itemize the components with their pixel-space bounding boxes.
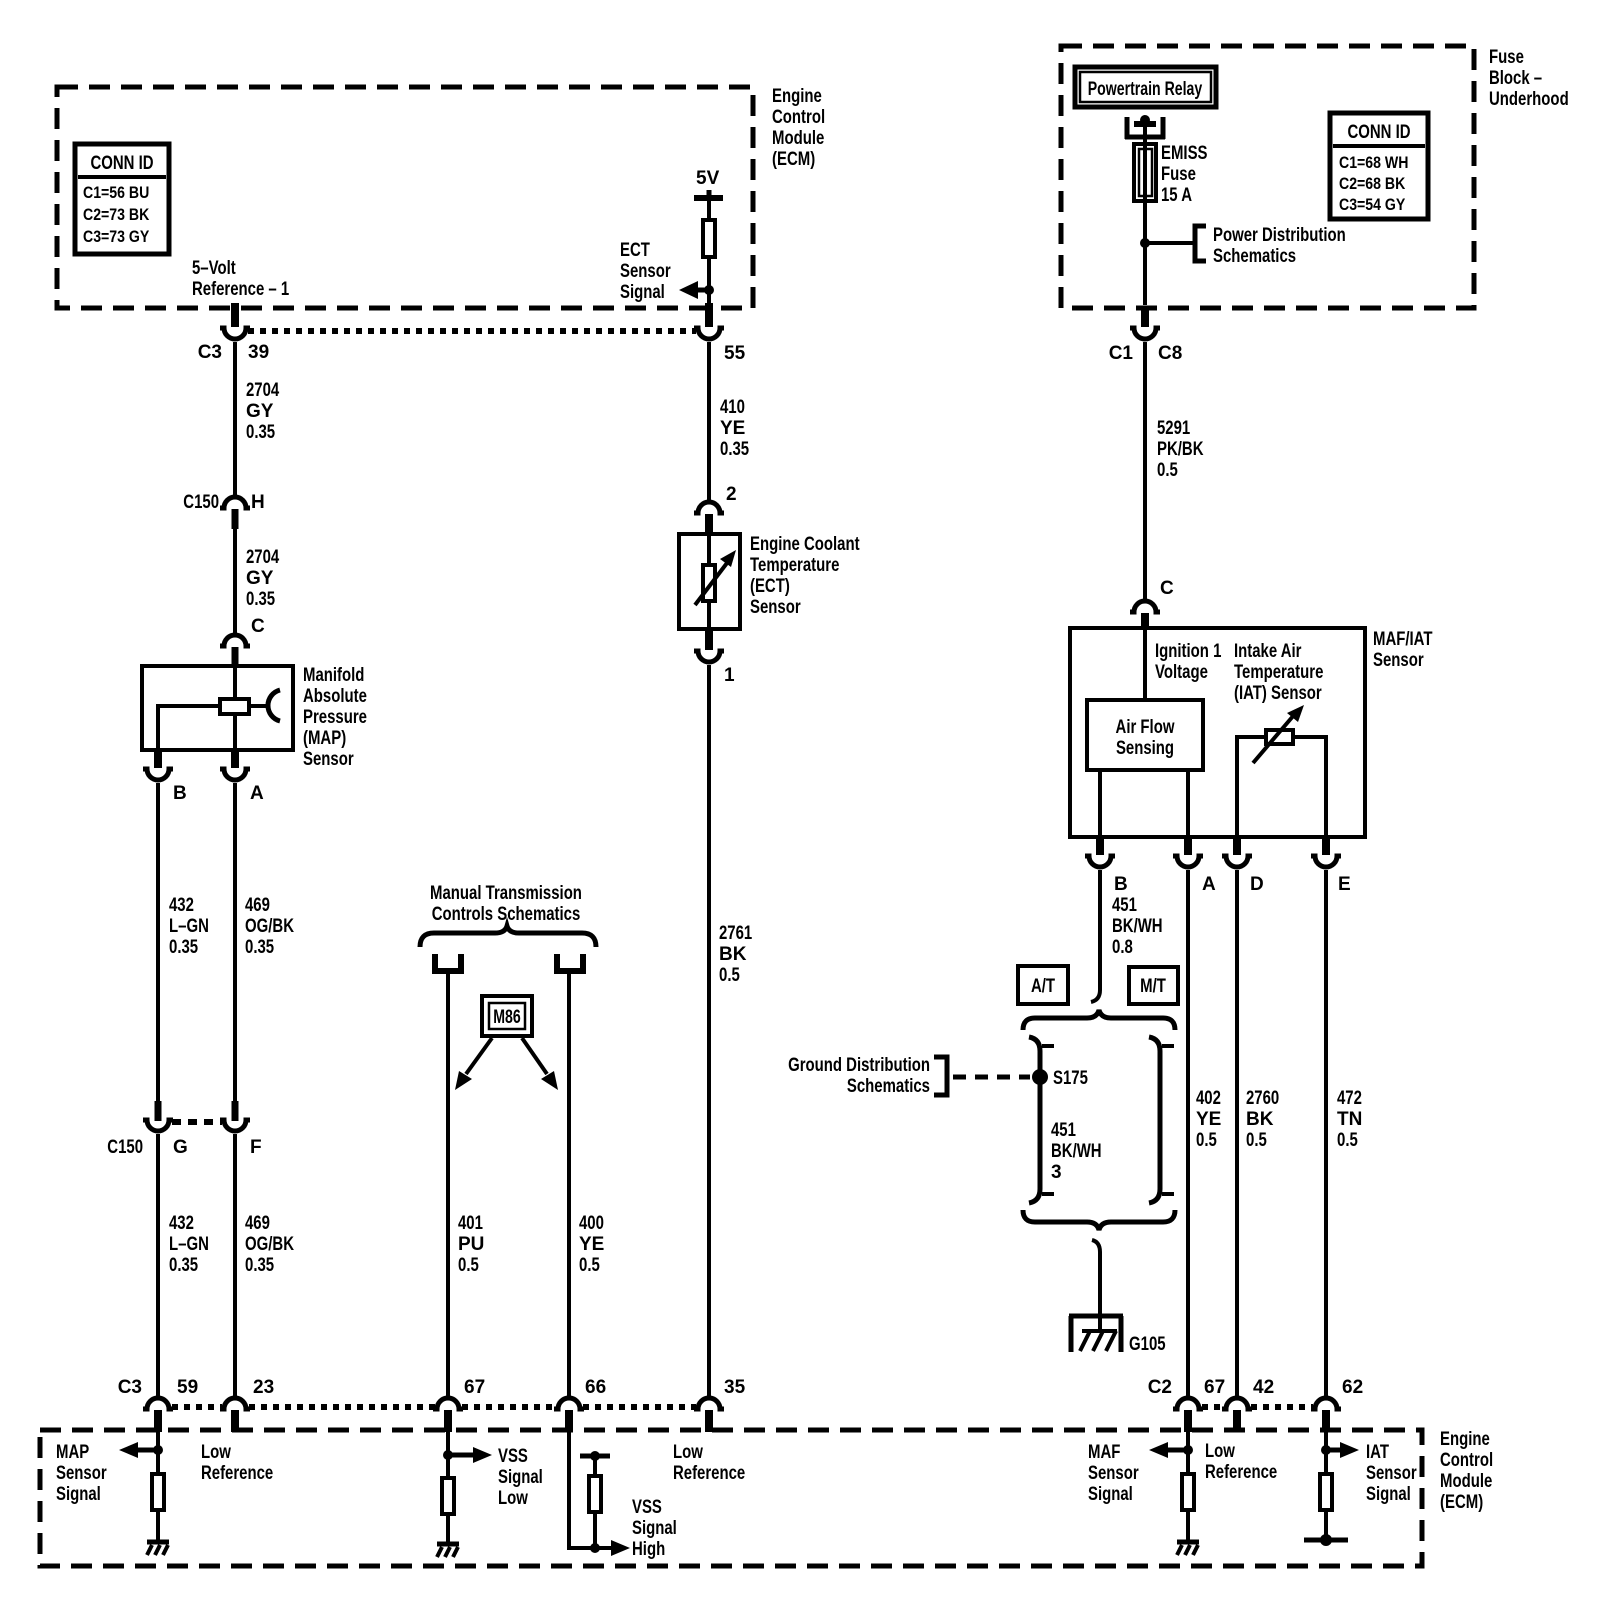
resistor VSS low (ECM) [442,1478,454,1514]
svg-text:23: 23 [253,1377,274,1398]
svg-text:Engine: Engine [1440,1429,1490,1450]
svg-text:Sensing: Sensing [1116,738,1174,759]
svg-text:(ECM): (ECM) [772,149,815,170]
wire IAT left leg [1237,737,1264,837]
connector MAF pin B [1085,837,1128,895]
svg-text:Sensor: Sensor [1088,1463,1139,1484]
svg-text:Control: Control [1440,1450,1493,1471]
ground (ECM internal, MAP) [147,1512,169,1555]
dashed callout line to S175 [953,1075,1030,1080]
svg-text:410: 410 [720,397,745,418]
svg-text:432: 432 [169,895,194,916]
label: EMISS Fuse 15 A [1161,143,1208,206]
connector terminal (to M/T schematics, left) [435,954,461,971]
label: 469 OG/BK 0.35 (lower) [245,1213,294,1276]
Powertrain Relay box [1075,67,1216,107]
node: ECT sensor signal junction + arrow [679,281,714,299]
svg-text:C2=68 BK: C2=68 BK [1339,174,1406,193]
svg-text:0.5: 0.5 [458,1255,479,1276]
svg-text:0.35: 0.35 [245,1255,274,1276]
node: power distribution tap [1140,238,1193,248]
svg-text:BK/WH: BK/WH [1051,1141,1102,1162]
MAP transducer element (resistor) [220,699,249,714]
svg-text:Control: Control [772,107,825,128]
svg-text:VSS: VSS [498,1446,528,1467]
svg-text:Ground Distribution: Ground Distribution [788,1055,930,1076]
MAP internal low-ref branch [158,706,218,750]
svg-text:472: 472 [1337,1088,1362,1109]
svg-text:Voltage: Voltage [1155,662,1208,683]
M86 arrow right [522,1038,558,1090]
svg-text:2760: 2760 [1246,1088,1279,1109]
option bracket left [1029,1037,1054,1203]
svg-text:0.35: 0.35 [720,439,749,460]
svg-text:400: 400 [579,1213,604,1234]
svg-text:39: 39 [248,342,269,363]
ECM module box (top left, dashed) [57,87,753,308]
svg-text:OG/BK: OG/BK [245,1234,294,1255]
svg-text:(MAP): (MAP) [303,728,346,749]
ground G105 [1069,1316,1123,1352]
svg-text:VSS: VSS [632,1497,662,1518]
MAP sensor box [142,666,293,750]
svg-text:M/T: M/T [1140,976,1166,997]
wire 432 L-GN (upper) [156,783,160,1101]
svg-text:Sensor: Sensor [620,261,671,282]
svg-text:Reference: Reference [201,1463,273,1484]
svg-text:67: 67 [464,1377,485,1398]
label: Low Reference (mid) [673,1442,745,1484]
label: 2760 BK 0.5 [1246,1088,1279,1151]
svg-text:C150: C150 [183,492,219,513]
svg-text:G: G [173,1137,188,1158]
wire VSS high run [569,1432,612,1548]
connector MAF/IAT pin C [1130,578,1174,630]
fuse EMISS 15A [1134,144,1156,201]
wire C1 border stub [1141,306,1149,327]
wire 5291 PK/BK [1143,342,1147,600]
label: 432 L-GN 0.35 (lower) [169,1213,209,1276]
dotted connector-row line (bottom right) [1202,1404,1313,1410]
wire 402 YE [1186,870,1190,1397]
svg-text:Low: Low [673,1442,703,1463]
relay contact symbol [1125,115,1165,144]
connector C150 pin G [107,1101,187,1158]
svg-text:B: B [173,783,187,804]
svg-text:S175: S175 [1053,1068,1088,1089]
svg-text:Low: Low [498,1488,528,1509]
connector terminal (to M/T schematics, right) [557,954,583,971]
svg-text:Module: Module [772,128,824,149]
svg-text:C1=68 WH: C1=68 WH [1339,153,1408,172]
MAP pressure port symbol [251,690,280,721]
svg-text:C3: C3 [118,1377,142,1398]
svg-text:EMISS: EMISS [1161,143,1208,164]
connector C150 pin H [183,492,264,529]
svg-text:E: E [1338,874,1351,895]
svg-text:C150: C150 [107,1137,143,1158]
svg-text:H: H [251,492,265,513]
wire MAF output A [1186,770,1190,837]
arrow VSS signal high [611,1540,630,1556]
svg-text:A: A [250,783,264,804]
svg-text:0.5: 0.5 [1337,1130,1358,1151]
node: MAF sensor signal + arrow [1149,1432,1193,1472]
svg-text:YE: YE [720,418,745,439]
label: 469 OG/BK 0.35 (upper) [245,895,294,958]
svg-text:55: 55 [724,343,746,364]
svg-text:C: C [1160,578,1174,599]
ECT sensor box [679,534,740,629]
label: Engine Coolant Temperature (ECT) Sensor [750,534,860,618]
ground (ECM internal, MAF) [1177,1512,1199,1555]
svg-text:A/T: A/T [1031,976,1055,997]
svg-text:Sensor: Sensor [1366,1463,1417,1484]
svg-text:G105: G105 [1129,1334,1166,1355]
M86 callout box [482,996,532,1036]
svg-text:5–Volt: 5–Volt [192,258,236,279]
svg-text:Sensor: Sensor [56,1463,107,1484]
svg-text:Signal: Signal [56,1484,101,1505]
label: 472 TN 0.5 [1337,1088,1362,1151]
svg-text:62: 62 [1342,1377,1363,1398]
svg-text:OG/BK: OG/BK [245,916,294,937]
svg-text:C2=73 BK: C2=73 BK [83,205,150,224]
label: 5291 PK/BK 0.5 [1157,418,1204,481]
connector MAF pin A [1173,837,1216,895]
wire MAF output B [1098,770,1102,837]
wire to ground G105 [1092,1240,1100,1316]
label: 5-Volt Reference - 1 [192,258,290,300]
M/T option box [1129,967,1178,1004]
svg-text:GY: GY [246,401,274,422]
svg-text:Powertrain Relay: Powertrain Relay [1088,79,1203,100]
svg-text:Signal: Signal [1088,1484,1133,1505]
svg-text:Sensor: Sensor [750,597,801,618]
connector pin 42 [1222,1377,1274,1432]
svg-text:IAT: IAT [1366,1442,1389,1463]
CONN ID table (fuse block) [1330,113,1428,219]
svg-text:CONN ID: CONN ID [1347,122,1410,143]
connector C150 pin F [220,1101,262,1158]
svg-text:469: 469 [245,895,270,916]
svg-text:Signal: Signal [620,282,665,303]
wire 2704 GY (lower) [233,529,237,635]
svg-text:TN: TN [1337,1109,1362,1130]
wire 469 OG/BK (upper) [233,783,237,1101]
connector pin 55 (ECM C-row) [694,328,746,364]
label: 402 YE 0.5 [1196,1088,1221,1151]
Air Flow Sensing box [1087,700,1203,770]
callout bracket: Ground Distribution Schematics [934,1057,947,1095]
wire IAT right leg [1295,737,1326,837]
MAP internal wiring [233,666,237,697]
svg-text:66: 66 [585,1377,606,1398]
connector pin 66 [554,1377,606,1432]
svg-text:2704: 2704 [246,380,280,401]
label: MAF Sensor Signal [1088,1442,1139,1505]
svg-text:BK: BK [1246,1109,1274,1130]
svg-text:0.5: 0.5 [1157,460,1178,481]
svg-text:Fuse: Fuse [1161,164,1196,185]
wire 432 L-GN (lower) [156,1134,160,1397]
connector C3 pin 39 [198,328,269,363]
svg-text:0.35: 0.35 [169,937,198,958]
label: Manifold Absolute Pressure (MAP) Sensor [303,665,367,770]
svg-text:3: 3 [1051,1162,1062,1183]
label: IAT Sensor Signal [1366,1442,1417,1505]
label: 400 YE 0.5 [579,1213,604,1276]
label: Fuse Block - Underhood [1489,47,1569,110]
svg-text:0.5: 0.5 [1246,1130,1267,1151]
label: Low Reference (right) [1205,1441,1277,1483]
svg-text:42: 42 [1253,1377,1274,1398]
svg-text:(IAT) Sensor: (IAT) Sensor [1234,683,1322,704]
wire 472 TN [1324,870,1328,1397]
connector MAP pin B [143,750,187,804]
svg-text:Air Flow: Air Flow [1116,717,1175,738]
wire 2761 BK [707,665,711,1397]
svg-text:0.35: 0.35 [245,937,274,958]
label: 2761 BK 0.5 [719,923,753,986]
label: Engine Control Module (ECM) [772,86,825,170]
svg-text:15 A: 15 A [1161,185,1192,206]
svg-text:2761: 2761 [719,923,753,944]
svg-text:YE: YE [1196,1109,1221,1130]
label: 2704 GY 0.35 (upper) [246,380,280,443]
connector ECT pin 2 [694,484,737,535]
svg-text:High: High [632,1539,665,1560]
svg-text:Sensor: Sensor [303,749,354,770]
connector C1 / C8 [1109,328,1183,364]
svg-text:Reference: Reference [673,1463,745,1484]
label: Power Distribution Schematics [1213,225,1346,267]
label: 451 BK/WH 0.8 [1112,895,1163,958]
label: Ignition 1 Voltage [1155,641,1222,683]
label: 410 YE 0.35 [720,397,749,460]
connector pin 67 [433,1377,485,1432]
connector ECT pin 1 [694,629,735,686]
svg-text:D: D [1250,874,1264,895]
svg-text:C2: C2 [1148,1377,1172,1398]
svg-text:67: 67 [1204,1377,1225,1398]
svg-text:2: 2 [726,484,737,505]
wire fuse to C1 [1143,202,1147,305]
svg-text:Module: Module [1440,1471,1492,1492]
connector C2 pin 67 [1148,1377,1225,1432]
node: IAT sensor signal + arrow [1321,1432,1359,1472]
svg-text:A: A [1202,874,1216,895]
termination bar (IAT low side) [1304,1512,1348,1546]
svg-text:401: 401 [458,1213,483,1234]
connector MAF pin E [1311,837,1351,895]
connector MAF pin D [1222,837,1264,895]
svg-text:Temperature: Temperature [750,555,839,576]
svg-text:35: 35 [724,1377,746,1398]
resistor IAT input (ECM) [1320,1474,1332,1510]
wire 39 border stub [231,303,239,327]
svg-text:Block –: Block – [1489,68,1542,89]
svg-text:C1=56 BU: C1=56 BU [83,183,149,202]
fuse block box (dashed) [1061,46,1474,308]
resistor VSS high (ECM) [580,1451,610,1553]
label: Manual Transmission Controls Schematics [430,883,582,925]
svg-text:59: 59 [177,1377,198,1398]
brace (options, upper) [1023,1010,1175,1030]
connector pin 23 [220,1377,274,1432]
svg-text:Reference – 1: Reference – 1 [192,279,290,300]
svg-text:L–GN: L–GN [169,1234,209,1255]
connector pin 35 [694,1377,746,1432]
wire 400 YE [567,974,571,1397]
5V supply symbol [694,168,723,218]
svg-text:F: F [250,1137,262,1158]
svg-text:PU: PU [458,1234,484,1255]
CONN ID table (ECM) [75,144,169,254]
svg-text:Manual Transmission: Manual Transmission [430,883,582,904]
svg-text:Low: Low [201,1442,231,1463]
wire from pull-up to ECT signal node [707,259,711,305]
svg-text:Sensor: Sensor [1373,650,1424,671]
ground (ECM internal, VSS low) [437,1516,459,1557]
IAT thermistor element [1253,705,1304,763]
ECM module box (bottom, dashed) [40,1430,1422,1566]
svg-text:(ECM): (ECM) [1440,1492,1483,1513]
label: ECT Sensor Signal [620,240,671,303]
svg-text:C: C [251,616,265,637]
brace (options, lower) [1023,1210,1175,1230]
wire 401 PU [446,974,450,1397]
svg-text:0.5: 0.5 [719,965,740,986]
wire 2760 BK [1235,870,1239,1397]
wire 2704 GY (upper) [233,342,237,497]
svg-text:C3: C3 [198,342,222,363]
ECT thermistor element [695,534,736,629]
option bracket right [1149,1037,1174,1203]
label: VSS Signal Low [498,1446,543,1509]
label: 2704 GY 0.35 (lower) [246,547,280,610]
wire ignition feed inside MAF [1143,628,1147,700]
svg-text:(ECT): (ECT) [750,576,790,597]
svg-text:432: 432 [169,1213,194,1234]
wire 410 YE [707,342,711,501]
label: MAP Sensor Signal [56,1442,107,1505]
svg-text:Underhood: Underhood [1489,89,1569,110]
svg-text:0.5: 0.5 [579,1255,600,1276]
label: VSS Signal High [632,1497,677,1560]
svg-text:C8: C8 [1158,343,1182,364]
svg-text:451: 451 [1051,1120,1076,1141]
svg-text:M86: M86 [493,1007,521,1028]
label: MAF/IAT Sensor [1373,629,1433,671]
svg-text:Engine: Engine [772,86,822,107]
resistor MAF input (ECM) [1182,1474,1194,1510]
A/T option box [1018,966,1068,1004]
wire 55 border stub [705,303,713,327]
svg-text:Schematics: Schematics [1213,246,1296,267]
MAF/IAT sensor box [1070,628,1365,837]
svg-text:Ignition 1: Ignition 1 [1155,641,1222,662]
wire 469 OG/BK (lower) [233,1134,237,1397]
M86 arrow left [455,1038,492,1090]
label: 451 BK/WH 3 [1051,1120,1102,1183]
label: Intake Air Temperature (IAT) Sensor [1234,641,1323,704]
svg-text:Signal: Signal [1366,1484,1411,1505]
label: Low Reference (left) [201,1442,273,1484]
wire 451 BK/WH upper [1091,870,1100,1002]
resistor MAP input (ECM) [152,1474,164,1510]
label: 401 PU 0.5 [458,1213,484,1276]
svg-text:Signal: Signal [632,1518,677,1539]
svg-text:Schematics: Schematics [847,1076,930,1097]
node: MAP sensor signal + arrow [119,1432,163,1472]
svg-text:Signal: Signal [498,1467,543,1488]
svg-text:B: B [1114,874,1128,895]
svg-text:Fuse: Fuse [1489,47,1524,68]
svg-text:Absolute: Absolute [303,686,367,707]
dashed link between C150 G and F [172,1119,222,1125]
svg-text:2704: 2704 [246,547,280,568]
svg-text:1: 1 [724,665,735,686]
svg-text:YE: YE [579,1234,604,1255]
svg-text:Low: Low [1205,1441,1235,1462]
label: Engine Control Module (ECM) bottom right [1440,1429,1493,1513]
svg-text:Temperature: Temperature [1234,662,1323,683]
svg-text:PK/BK: PK/BK [1157,439,1204,460]
svg-text:Power Distribution: Power Distribution [1213,225,1346,246]
dotted connector-row line (ECM top) [248,328,696,334]
svg-text:BK/WH: BK/WH [1112,916,1163,937]
svg-text:Manifold: Manifold [303,665,364,686]
node: VSS signal low + arrow [443,1432,492,1476]
brace (manual transmission section) [420,926,596,947]
svg-text:0.35: 0.35 [246,422,275,443]
svg-text:ECT: ECT [620,240,650,261]
svg-text:5V: 5V [696,168,720,189]
connector MAP pin C [220,616,265,666]
svg-text:MAF/IAT: MAF/IAT [1373,629,1433,650]
svg-text:402: 402 [1196,1088,1221,1109]
label: Ground Distribution Schematics [788,1055,930,1097]
svg-text:C1: C1 [1109,343,1134,364]
svg-text:0.5: 0.5 [1196,1130,1217,1151]
svg-text:GY: GY [246,568,274,589]
svg-text:451: 451 [1112,895,1137,916]
svg-text:C3=73 GY: C3=73 GY [83,227,150,246]
label: 432 L-GN 0.35 (upper) [169,895,209,958]
connector pin 62 [1311,1377,1363,1432]
dotted connector-row line (bottom left) [172,1404,696,1410]
svg-text:0.35: 0.35 [246,589,275,610]
svg-text:5291: 5291 [1157,418,1191,439]
svg-text:BK: BK [719,944,747,965]
svg-text:Engine Coolant: Engine Coolant [750,534,860,555]
svg-text:0.35: 0.35 [169,1255,198,1276]
svg-text:MAP: MAP [56,1442,89,1463]
callout bracket: Power Distribution Schematics [1195,226,1206,261]
svg-text:C3=54 GY: C3=54 GY [1339,195,1406,214]
svg-text:Pressure: Pressure [303,707,367,728]
splice S175 [1032,1068,1088,1089]
svg-text:L–GN: L–GN [169,916,209,937]
resistor ECT pull-up (in ECM) [703,220,715,257]
svg-text:MAF: MAF [1088,1442,1120,1463]
svg-text:Reference: Reference [1205,1462,1277,1483]
connector MAP pin A [220,750,264,804]
svg-text:469: 469 [245,1213,270,1234]
svg-text:0.8: 0.8 [1112,937,1133,958]
connector C3 pin 59 [118,1377,198,1432]
